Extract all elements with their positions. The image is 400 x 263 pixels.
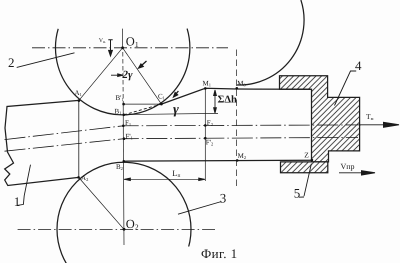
lower fibre centerline [5,137,359,151]
node F1 [122,125,125,128]
node O1 center dot [121,46,124,49]
radius O1-A1 [79,48,123,101]
node O2 center dot [123,228,126,231]
B'1-C1 horizontal construction line [124,103,162,105]
Vpr speed arrow [339,171,375,175]
radius O1-C1 [123,48,162,104]
vertical line B'1 to B2 [122,104,124,161]
svg-text:Фиг. 1: Фиг. 1 [201,246,238,261]
svg-text:4: 4 [355,58,362,73]
vertical line M1 down [204,88,206,181]
leader for label 4 [335,71,357,106]
workpiece strip 1 outline [5,100,79,185]
leader for label 2 [17,53,75,68]
node M2 [236,159,239,162]
node B'1 [122,103,125,106]
upper fibre centerline [5,125,362,140]
node B2 [123,160,126,163]
strip exit top surface C1-M1-M0 [161,88,311,104]
svg-text:Vн.: Vн. [99,38,106,44]
2-gamma left arrow [111,74,123,77]
node C1 [160,103,163,106]
node B1 [123,114,126,117]
svg-text:γ: γ [173,103,179,118]
dimension Ln with arrows [124,178,206,181]
leader for label 3 [178,202,222,215]
node A2 [77,176,80,179]
bottom roll 3 (circle O2) [57,162,191,263]
vertical line B2 to O2 and below [123,161,126,245]
top-right support roller arc [237,0,304,85]
Tm tension arrow [360,122,399,127]
node F'1 [123,137,126,140]
vertical axis above O1 [122,29,124,48]
node F2 [204,124,207,127]
vertical dashed axis O1 to B'1 [122,52,124,104]
leader for label 5 [299,164,312,198]
node A1 [78,99,81,102]
Vn feed arrow [108,40,112,56]
dashed chord B1-C1 [124,104,162,115]
node M0 [236,87,239,90]
top roll 2 (circle O1, partial arc) [55,29,189,115]
svg-text:Vпр: Vпр [341,162,355,171]
svg-text:2γ: 2γ [122,69,134,81]
svg-text:ΣΔh: ΣΔh [218,95,237,106]
svg-text:3: 3 [220,191,227,206]
gamma arrow [173,91,178,97]
strip entry section vertical A1-A2 [78,100,80,177]
die block 4 (hatched, stepped) [280,76,360,162]
leader for label 1 [17,165,30,206]
B1 horizontal reference line [124,113,218,114]
horizontal centerline O2 [18,229,215,231]
node F'2 [204,137,207,140]
svg-text:2: 2 [8,55,15,70]
horizontal centerline O1 [32,47,228,49]
node M1 [204,87,207,90]
dimension sum-delta-h arrow [214,90,217,113]
die block 5 (hatched bar) [281,162,328,173]
vertical dash-dot line M0-M2 [236,50,238,190]
svg-text:5: 5 [294,185,301,200]
svg-text:Z: Z [304,151,309,160]
2-gamma right arrow [138,61,146,68]
node Z [311,159,314,162]
strip exit bottom surface B2-M2-Z [124,160,312,161]
radius O2-A2 [79,177,124,229]
svg-text:1: 1 [14,194,20,209]
